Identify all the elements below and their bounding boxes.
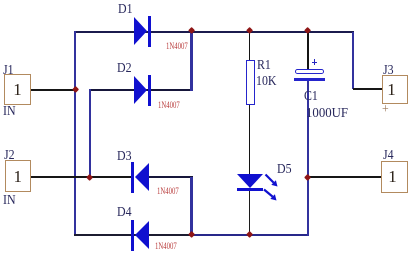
wire C1 bottom vertical x308 bbox=[307, 81, 309, 236]
wire bottom rail left (DC-) bbox=[74, 234, 192, 236]
wire J2 pin bbox=[31, 176, 90, 178]
wire J4 pin bbox=[308, 176, 381, 178]
wire vertical x90 (J2/D2/D3 net) bbox=[89, 89, 91, 178]
wire left rail vertical bbox=[74, 31, 76, 237]
junction J2/D3 node bbox=[86, 174, 93, 181]
wire LED cathode pin bbox=[249, 191, 251, 235]
wire D3 anode drop x192 bbox=[190, 177, 192, 236]
diode D1 bbox=[134, 17, 147, 45]
wire J1 pin bbox=[31, 89, 75, 91]
wire D3 row right bbox=[148, 176, 193, 178]
wire D3 row left bbox=[89, 176, 131, 178]
wire R1 top pin bbox=[249, 32, 251, 61]
junction J1/left-rail bbox=[72, 86, 79, 93]
wire J3 pin bbox=[353, 88, 382, 90]
value 1000UF bbox=[306, 106, 348, 120]
wire D2 cathode riser x192 bbox=[190, 32, 192, 92]
connector J4 bbox=[381, 161, 408, 193]
wire R1 bottom pin to LED bbox=[249, 105, 251, 175]
diode D4 bbox=[135, 221, 149, 249]
resistor R1 bbox=[246, 60, 255, 105]
value 10K bbox=[256, 75, 277, 89]
junction LED on bottom rail bbox=[246, 231, 253, 238]
junction D1-D2 cathode on top rail bbox=[188, 27, 195, 34]
wire D2 anode row bbox=[89, 89, 193, 91]
diode D2 bbox=[134, 76, 147, 104]
wire bottom rail right (DC-) bbox=[192, 234, 309, 236]
wire J3 drop x353 bbox=[352, 32, 354, 90]
junction D3 drop to bottom rail bbox=[188, 231, 195, 238]
junction C1 top rail bbox=[304, 27, 311, 34]
connector J3 bbox=[382, 75, 408, 104]
diode D3 bbox=[135, 163, 149, 191]
wire top rail (DC+) bbox=[74, 31, 354, 33]
connector J2 bbox=[5, 160, 32, 193]
junction J4 tap bbox=[304, 173, 311, 180]
junction R1 top rail bbox=[246, 27, 253, 34]
LED D5 bbox=[237, 174, 263, 188]
connector J1 bbox=[4, 74, 31, 106]
capacitor C1 bbox=[295, 69, 324, 74]
wire C1 top pin bbox=[307, 32, 309, 70]
